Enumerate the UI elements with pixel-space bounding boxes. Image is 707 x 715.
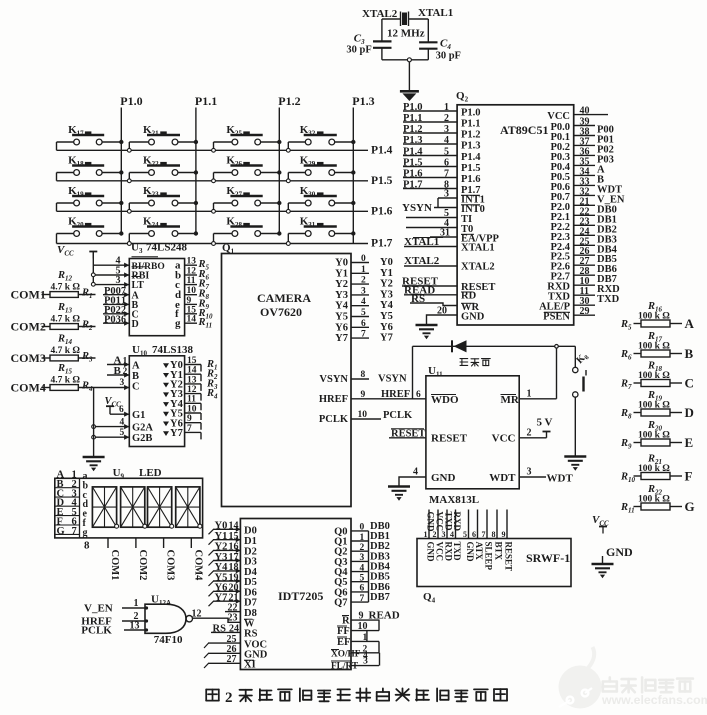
pushbutton K28 bbox=[213, 234, 215, 242]
svg-text:11: 11 bbox=[187, 395, 196, 405]
svg-text:P1.3: P1.3 bbox=[461, 141, 481, 152]
svg-text:12: 12 bbox=[187, 385, 197, 395]
svg-text:7: 7 bbox=[482, 530, 486, 539]
wire row bus P1.7 bbox=[57, 243, 369, 245]
svg-text:4: 4 bbox=[413, 467, 418, 478]
wire row bus P1.6 bbox=[57, 210, 369, 212]
svg-text:6: 6 bbox=[360, 584, 365, 594]
IC IDT7205 box bbox=[240, 519, 351, 670]
svg-text:12 MHz: 12 MHz bbox=[387, 28, 425, 40]
svg-text:COM1: COM1 bbox=[109, 550, 120, 581]
svg-text:6: 6 bbox=[121, 314, 126, 325]
pin RS 24 bbox=[211, 631, 240, 633]
pin 8 BTX bbox=[496, 510, 498, 539]
svg-text:7: 7 bbox=[187, 424, 192, 434]
svg-text:2: 2 bbox=[360, 543, 365, 553]
svg-text:Y4: Y4 bbox=[335, 301, 349, 312]
svg-text:GND: GND bbox=[426, 542, 436, 563]
IC U3 74LS248 box bbox=[129, 259, 184, 336]
wire bbox=[382, 59, 428, 61]
svg-text:P1.6: P1.6 bbox=[403, 169, 423, 180]
svg-text:VSYN: VSYN bbox=[319, 374, 348, 385]
svg-text:GND: GND bbox=[426, 512, 436, 533]
pushbutton K26 bbox=[213, 173, 215, 179]
svg-text:Y1: Y1 bbox=[380, 268, 393, 279]
pin 6 ATX bbox=[477, 510, 479, 539]
svg-text:XTAL2: XTAL2 bbox=[461, 262, 495, 273]
svg-text:XTAL1: XTAL1 bbox=[461, 243, 495, 254]
diode D1 bbox=[413, 345, 555, 347]
svg-text:Y2: Y2 bbox=[335, 279, 348, 290]
pin 23 W from gate bbox=[192, 618, 240, 622]
svg-text:P1.3: P1.3 bbox=[403, 135, 423, 146]
svg-text:24: 24 bbox=[229, 623, 239, 634]
svg-text:4.7 k Ω: 4.7 k Ω bbox=[51, 283, 81, 293]
svg-text:5: 5 bbox=[360, 574, 365, 584]
IC Q2 AT89C51 box bbox=[457, 105, 574, 325]
svg-text:P1.5: P1.5 bbox=[371, 175, 393, 187]
pushbutton K29 bbox=[287, 173, 289, 179]
svg-text:10: 10 bbox=[358, 621, 368, 632]
wire column P1.2 bbox=[278, 108, 280, 234]
LED display U9 box bbox=[55, 478, 203, 538]
svg-text:5: 5 bbox=[463, 530, 467, 539]
svg-text:Y7: Y7 bbox=[170, 428, 183, 439]
svg-text:TXD: TXD bbox=[597, 294, 620, 305]
ground bbox=[388, 485, 410, 487]
svg-text:P1.6: P1.6 bbox=[461, 174, 481, 185]
svg-text:5 V: 5 V bbox=[537, 417, 553, 429]
IC Q4 SRWF-1 box bbox=[417, 539, 571, 587]
svg-text:Y0: Y0 bbox=[335, 258, 348, 269]
pin VOC 25 bbox=[208, 642, 240, 644]
pin 3 RXD bbox=[446, 510, 448, 539]
svg-text:D3: D3 bbox=[244, 557, 257, 568]
svg-text:Y6: Y6 bbox=[380, 322, 393, 333]
capacitor C4 bbox=[419, 41, 437, 43]
svg-text:g: g bbox=[83, 527, 88, 538]
svg-text:MR: MR bbox=[501, 394, 520, 406]
svg-text:12: 12 bbox=[192, 609, 202, 620]
pushbutton K23 bbox=[128, 203, 130, 209]
svg-text:G1: G1 bbox=[132, 410, 145, 421]
svg-text:5: 5 bbox=[120, 428, 125, 438]
svg-text:VSYN: VSYN bbox=[378, 374, 407, 385]
svg-text:13: 13 bbox=[187, 257, 197, 267]
svg-text:13: 13 bbox=[130, 620, 140, 631]
svg-text:13: 13 bbox=[187, 375, 197, 385]
wire row bus P1.5 bbox=[57, 180, 369, 182]
node crystal-gnd bbox=[407, 58, 411, 62]
svg-text:D: D bbox=[132, 319, 139, 330]
IC U11 MAX813L box bbox=[426, 376, 519, 489]
svg-text:RS: RS bbox=[244, 629, 258, 640]
svg-text:10: 10 bbox=[358, 410, 368, 420]
svg-text:1: 1 bbox=[360, 533, 365, 543]
svg-text:XTAL1: XTAL1 bbox=[418, 7, 453, 19]
svg-text:RS: RS bbox=[213, 623, 227, 634]
svg-text:PCLK: PCLK bbox=[319, 414, 349, 425]
svg-text:COM2: COM2 bbox=[11, 320, 46, 334]
node junction bbox=[91, 282, 95, 286]
svg-text:B: B bbox=[685, 346, 694, 361]
wire bbox=[382, 18, 401, 20]
svg-text:D7: D7 bbox=[244, 597, 257, 608]
svg-text:7: 7 bbox=[72, 526, 77, 537]
svg-text:4: 4 bbox=[444, 135, 449, 146]
svg-text:PCLK: PCLK bbox=[81, 624, 112, 636]
svg-text:P03: P03 bbox=[104, 314, 121, 325]
svg-text:VCC: VCC bbox=[547, 111, 570, 122]
inputs P00 P01 P02 P03 bbox=[103, 294, 129, 296]
svg-text:8: 8 bbox=[84, 540, 90, 552]
pin 22 D8 bbox=[225, 611, 240, 613]
outputs Y0-Y7 bbox=[163, 363, 169, 368]
svg-text:12: 12 bbox=[187, 267, 197, 277]
svg-text:GND: GND bbox=[461, 312, 485, 323]
pin 5 GND bbox=[468, 510, 470, 539]
svg-text:4: 4 bbox=[360, 563, 365, 573]
svg-text:A: A bbox=[685, 316, 695, 331]
svg-text:6: 6 bbox=[416, 390, 421, 400]
svg-text:3: 3 bbox=[444, 189, 449, 200]
svg-text:P1.7: P1.7 bbox=[371, 238, 393, 250]
svg-text:HREF: HREF bbox=[381, 389, 410, 400]
svg-text:C: C bbox=[132, 382, 140, 393]
svg-text:RESET: RESET bbox=[504, 542, 514, 572]
svg-text:Y7: Y7 bbox=[380, 333, 393, 344]
svg-text:9: 9 bbox=[359, 610, 364, 621]
svg-text:P1.2: P1.2 bbox=[403, 124, 423, 135]
svg-text:RXD: RXD bbox=[452, 512, 462, 532]
svg-text:Y0: Y0 bbox=[380, 257, 393, 268]
svg-text:P1.5: P1.5 bbox=[461, 163, 481, 174]
svg-text:D1: D1 bbox=[244, 536, 257, 547]
watermark text bbox=[603, 677, 617, 691]
pushbutton K8 manual reset bbox=[558, 345, 575, 347]
svg-text:15: 15 bbox=[229, 531, 239, 542]
svg-text:3: 3 bbox=[116, 275, 121, 286]
svg-text:6: 6 bbox=[119, 405, 124, 415]
svg-text:P1.1: P1.1 bbox=[403, 113, 423, 124]
svg-text:GND: GND bbox=[606, 545, 633, 559]
svg-text:V_EN: V_EN bbox=[84, 602, 113, 614]
svg-text:27: 27 bbox=[227, 654, 237, 665]
svg-text:Y5: Y5 bbox=[380, 311, 393, 322]
svg-text:Y3: Y3 bbox=[380, 289, 393, 300]
ground bbox=[564, 455, 586, 457]
svg-text:Y5: Y5 bbox=[335, 312, 348, 323]
svg-text:6: 6 bbox=[444, 158, 449, 169]
wire COM4 down bbox=[93, 388, 95, 457]
svg-text:10: 10 bbox=[187, 286, 197, 296]
svg-text:LED: LED bbox=[139, 467, 162, 479]
svg-text:Y7: Y7 bbox=[335, 333, 348, 344]
svg-text:14: 14 bbox=[187, 366, 197, 376]
svg-text:VCC: VCC bbox=[435, 542, 445, 562]
svg-text:5: 5 bbox=[361, 308, 366, 318]
pushbutton K30 bbox=[287, 203, 289, 209]
svg-text:SLEEP: SLEEP bbox=[484, 542, 494, 571]
svg-text:P1.0: P1.0 bbox=[403, 102, 423, 113]
pushbutton K32 bbox=[287, 142, 289, 148]
svg-text:TXD: TXD bbox=[452, 542, 462, 562]
svg-text:5: 5 bbox=[444, 147, 449, 158]
input A bbox=[107, 364, 129, 366]
svg-text:3: 3 bbox=[442, 530, 446, 539]
svg-text:Q7: Q7 bbox=[334, 598, 347, 609]
svg-text:2: 2 bbox=[527, 427, 532, 438]
wire bbox=[574, 397, 576, 456]
svg-text:7: 7 bbox=[361, 330, 366, 340]
svg-text:Y4: Y4 bbox=[380, 300, 394, 311]
watermark elecfans logo bbox=[559, 666, 602, 709]
svg-text:3: 3 bbox=[360, 553, 365, 563]
svg-text:4.7 k Ω: 4.7 k Ω bbox=[51, 315, 81, 325]
svg-text:www.elecfans.com: www.elecfans.com bbox=[601, 693, 707, 707]
svg-text:Y1: Y1 bbox=[215, 531, 228, 542]
svg-text:P1.4: P1.4 bbox=[461, 152, 481, 163]
svg-text:WDT: WDT bbox=[489, 472, 516, 484]
svg-text:Y2: Y2 bbox=[380, 279, 393, 290]
svg-text:9: 9 bbox=[187, 414, 192, 424]
pushbutton K19 bbox=[57, 202, 74, 204]
svg-text:P1.2: P1.2 bbox=[278, 94, 300, 108]
svg-text:E: E bbox=[685, 435, 694, 450]
pushbutton K27 bbox=[213, 203, 215, 209]
wire column P1.1 bbox=[195, 108, 197, 234]
svg-text:BTX: BTX bbox=[494, 542, 504, 561]
input C bbox=[124, 385, 129, 390]
svg-text:14: 14 bbox=[229, 521, 239, 532]
pin GND 26 bbox=[208, 652, 240, 654]
svg-text:4: 4 bbox=[120, 418, 125, 428]
svg-text:F: F bbox=[685, 469, 693, 484]
svg-text:14: 14 bbox=[187, 315, 197, 325]
svg-text:11: 11 bbox=[187, 276, 196, 286]
node junction bbox=[91, 273, 95, 277]
svg-text:8: 8 bbox=[492, 530, 496, 539]
svg-text:COM2: COM2 bbox=[137, 550, 148, 581]
svg-text:2: 2 bbox=[361, 276, 366, 286]
svg-text:D8: D8 bbox=[244, 608, 257, 619]
input B bbox=[107, 374, 129, 376]
svg-text:3: 3 bbox=[363, 657, 368, 667]
COM1-COM4 pins bbox=[107, 538, 109, 548]
svg-text:15: 15 bbox=[187, 356, 197, 366]
svg-text:P1.7: P1.7 bbox=[403, 180, 423, 191]
svg-text:P1.4: P1.4 bbox=[403, 147, 423, 158]
svg-text:R: R bbox=[342, 616, 350, 627]
svg-text:1: 1 bbox=[444, 102, 449, 113]
svg-text:17: 17 bbox=[229, 552, 239, 563]
svg-text:30 pF: 30 pF bbox=[436, 51, 461, 62]
svg-text:VCC: VCC bbox=[492, 432, 516, 444]
svg-text:1: 1 bbox=[123, 357, 128, 367]
svg-text:Y6: Y6 bbox=[335, 322, 348, 333]
svg-text:MAX813L: MAX813L bbox=[429, 494, 479, 506]
svg-text:A: A bbox=[132, 361, 140, 372]
ground bbox=[416, 324, 438, 326]
enable G2A bbox=[94, 426, 130, 428]
svg-text:EF: EF bbox=[337, 637, 350, 648]
pin 2 VCC bbox=[437, 510, 439, 539]
pushbutton K21 bbox=[128, 142, 130, 148]
enable G2B bbox=[94, 436, 130, 438]
svg-text:7: 7 bbox=[360, 594, 365, 604]
svg-text:P1.6: P1.6 bbox=[371, 206, 393, 218]
svg-text:4.7 k Ω: 4.7 k Ω bbox=[51, 346, 81, 356]
svg-text:Y3: Y3 bbox=[335, 290, 348, 301]
svg-text:P1.0: P1.0 bbox=[120, 94, 142, 108]
ground bbox=[400, 90, 419, 93]
pin 4 TXD bbox=[455, 510, 457, 539]
svg-text:3: 3 bbox=[527, 467, 532, 478]
svg-text:PSEN: PSEN bbox=[543, 312, 570, 323]
svg-text:READ: READ bbox=[369, 609, 400, 621]
svg-text:C: C bbox=[685, 376, 694, 391]
svg-text:2: 2 bbox=[225, 690, 233, 706]
svg-text:Y1: Y1 bbox=[335, 268, 348, 279]
svg-text:XI: XI bbox=[244, 660, 256, 671]
svg-text:74F10: 74F10 bbox=[154, 634, 183, 646]
svg-text:Y3: Y3 bbox=[215, 552, 228, 563]
svg-text:Y0: Y0 bbox=[215, 521, 228, 532]
svg-text:GND: GND bbox=[465, 542, 475, 563]
svg-text:RESET: RESET bbox=[431, 432, 468, 444]
svg-text:4: 4 bbox=[361, 297, 366, 307]
pin 9 RESET bbox=[506, 510, 508, 539]
svg-text:VCC: VCC bbox=[435, 512, 445, 532]
pushbutton K31 bbox=[287, 234, 289, 242]
svg-text:30 pF: 30 pF bbox=[346, 45, 371, 56]
wire column P1.3 bbox=[352, 108, 354, 244]
pushbutton K18 bbox=[57, 172, 74, 174]
wire column P1.0 bbox=[120, 108, 122, 234]
svg-text:2: 2 bbox=[433, 530, 437, 539]
IC Q1 CAMERA OV7620 box bbox=[222, 254, 352, 507]
segment input ladder A-G bbox=[55, 487, 80, 489]
crystal Y1 12MHz bbox=[400, 12, 402, 27]
svg-text:B: B bbox=[132, 371, 139, 382]
wire bbox=[408, 62, 410, 90]
svg-text:6: 6 bbox=[361, 319, 366, 329]
svg-text:COM4: COM4 bbox=[192, 550, 203, 582]
svg-text:4.7 k Ω: 4.7 k Ω bbox=[51, 376, 81, 386]
outputs a-g with resistors R5-R11 bbox=[185, 264, 197, 266]
pushbutton K24 bbox=[128, 234, 130, 242]
svg-text:G2A: G2A bbox=[132, 423, 153, 434]
svg-text:8: 8 bbox=[361, 370, 366, 380]
svg-text:P1.1: P1.1 bbox=[461, 119, 481, 130]
svg-text:P1.1: P1.1 bbox=[195, 94, 217, 108]
svg-text:P1.4: P1.4 bbox=[371, 145, 393, 157]
svg-text:0: 0 bbox=[360, 523, 365, 533]
7-segment digits bbox=[92, 487, 116, 527]
svg-text:COM1: COM1 bbox=[11, 288, 46, 302]
svg-text:23: 23 bbox=[228, 613, 238, 624]
svg-text:HREF: HREF bbox=[319, 394, 348, 405]
svg-text:YSYN: YSYN bbox=[402, 202, 432, 214]
svg-text:9: 9 bbox=[502, 530, 506, 539]
pushbutton K20 bbox=[57, 233, 74, 235]
svg-text:IDT7205: IDT7205 bbox=[278, 589, 323, 603]
node bbox=[555, 345, 559, 349]
svg-text:XTAL2: XTAL2 bbox=[362, 8, 398, 20]
svg-text:74LS248: 74LS248 bbox=[146, 242, 187, 254]
svg-text:2: 2 bbox=[444, 113, 449, 124]
svg-text:OV7620: OV7620 bbox=[260, 305, 302, 319]
external P1.0-P1.7 labels bbox=[403, 110, 457, 112]
svg-text:G: G bbox=[685, 499, 695, 514]
wire row bus P1.4 bbox=[57, 149, 369, 151]
pin XI 27 bbox=[208, 662, 240, 664]
pin TI T0 stubs bbox=[406, 217, 427, 219]
svg-text:7: 7 bbox=[444, 169, 449, 180]
svg-text:TXD: TXD bbox=[444, 512, 454, 532]
svg-text:1: 1 bbox=[527, 389, 532, 400]
svg-text:P1.0: P1.0 bbox=[461, 108, 481, 119]
pushbutton K22 bbox=[128, 173, 130, 179]
ground bbox=[83, 456, 105, 458]
svg-text:CAMERA: CAMERA bbox=[257, 291, 311, 305]
svg-text:SRWF-1: SRWF-1 bbox=[526, 551, 570, 565]
svg-text:WDO: WDO bbox=[431, 394, 459, 406]
wire vcc to enables bbox=[92, 252, 94, 285]
svg-text:P1.2: P1.2 bbox=[461, 130, 481, 141]
IC U10 74LS138 box bbox=[129, 356, 184, 447]
svg-text:3: 3 bbox=[361, 286, 366, 296]
svg-text:PCLK: PCLK bbox=[383, 410, 413, 421]
svg-text:74LS138: 74LS138 bbox=[152, 344, 193, 356]
svg-text:3: 3 bbox=[120, 378, 125, 388]
svg-text:P1.3: P1.3 bbox=[352, 94, 374, 108]
svg-text:GND: GND bbox=[431, 472, 456, 484]
svg-text:AT89C51: AT89C51 bbox=[500, 123, 548, 137]
svg-text:10: 10 bbox=[187, 404, 197, 414]
capacitor C3 bbox=[373, 40, 392, 42]
svg-text:6: 6 bbox=[472, 530, 476, 539]
caption figure 2 bbox=[206, 690, 219, 701]
svg-text:B: B bbox=[114, 365, 122, 377]
svg-text:WDT: WDT bbox=[547, 473, 574, 485]
svg-text:Y7: Y7 bbox=[215, 593, 228, 604]
svg-text:g: g bbox=[175, 318, 181, 330]
svg-text:ATX: ATX bbox=[474, 542, 484, 561]
svg-text:9: 9 bbox=[361, 390, 366, 400]
svg-text:3: 3 bbox=[444, 124, 449, 135]
svg-text:D: D bbox=[685, 405, 694, 420]
svg-text:1: 1 bbox=[361, 265, 366, 275]
svg-text:G2B: G2B bbox=[132, 433, 152, 444]
svg-text:1: 1 bbox=[134, 598, 139, 609]
svg-text:1: 1 bbox=[363, 633, 368, 643]
svg-text:G: G bbox=[57, 526, 65, 537]
svg-text:1: 1 bbox=[424, 530, 428, 539]
pin 7 SLEEP bbox=[486, 510, 488, 539]
svg-text:0: 0 bbox=[361, 254, 366, 264]
svg-text:4: 4 bbox=[450, 530, 454, 539]
svg-text:40: 40 bbox=[580, 106, 590, 117]
pushbutton K17 bbox=[57, 141, 74, 143]
svg-text:COM3: COM3 bbox=[165, 550, 176, 581]
svg-text:D0: D0 bbox=[244, 526, 257, 537]
svg-text:COM3: COM3 bbox=[11, 351, 46, 365]
svg-text:FF: FF bbox=[337, 626, 350, 637]
svg-text:COM4: COM4 bbox=[11, 381, 46, 395]
svg-text:P1.5: P1.5 bbox=[403, 158, 423, 169]
svg-text:RXD: RXD bbox=[444, 542, 454, 562]
